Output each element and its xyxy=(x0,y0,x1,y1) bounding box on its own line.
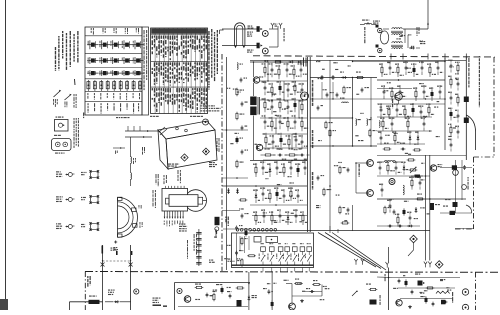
capacitor K1-28 xyxy=(293,133,302,147)
capacitor K4-7 xyxy=(435,61,443,75)
cap row K7 xyxy=(388,225,413,228)
DIN socket 1 xyxy=(55,117,69,132)
wire K5 row0 xyxy=(250,160,307,162)
capacitor K8-9 xyxy=(455,126,459,139)
hook curve right xyxy=(466,205,472,213)
label mid (rotated) xyxy=(187,240,188,259)
wire k1 h2 xyxy=(260,99,307,101)
wire k1 v2 xyxy=(253,83,255,96)
resistor K1-17 xyxy=(299,100,304,114)
board LP59 left boundary (dash-dot) xyxy=(84,272,86,311)
resistor K5-17 xyxy=(269,211,278,225)
gnd K12 xyxy=(300,299,304,302)
margin tick xyxy=(74,79,77,85)
capacitor K1-3 xyxy=(284,63,293,77)
resistor K4b-3 xyxy=(402,105,411,119)
sound output cluster wires xyxy=(393,278,460,299)
res K2-4 xyxy=(343,86,351,95)
capacitor K1-6 xyxy=(262,81,272,95)
resistor K5-4 xyxy=(281,163,285,177)
transistor V20 xyxy=(253,77,259,83)
ecap K12 xyxy=(271,300,274,307)
wires K3 xyxy=(383,0,429,43)
fuse dark xyxy=(89,296,100,305)
wire k1 vq3 xyxy=(298,100,300,118)
wire k1 h5 xyxy=(263,159,307,161)
ecap K11 xyxy=(221,286,224,293)
aerial symbol 1 xyxy=(53,90,61,107)
junction dots right xyxy=(352,61,431,200)
transistor V61 xyxy=(396,300,402,306)
wire K7 v2 xyxy=(429,155,431,261)
resistor K1-7 xyxy=(269,83,277,97)
value labels zone 8 xyxy=(195,287,231,300)
resistor K8-2 xyxy=(448,76,452,89)
main bus y60 xyxy=(250,59,466,61)
channel selector frame xyxy=(232,233,314,268)
resistor K1-4 xyxy=(291,65,300,79)
coil K2-1 xyxy=(356,119,361,126)
capacitor K9-5 xyxy=(241,126,248,131)
parts table frame xyxy=(151,28,208,114)
dash line crossing ticks xyxy=(391,54,466,60)
resistor K1-27 xyxy=(286,135,291,149)
capacitor K4-12 xyxy=(421,85,429,99)
resistor K9-8 xyxy=(236,160,244,169)
res K9-x3 xyxy=(241,237,248,246)
cap K11-1 xyxy=(206,293,209,298)
D IF2 xyxy=(297,61,303,64)
diode K4b-14 xyxy=(415,131,419,145)
wire K4b h1 xyxy=(377,116,432,118)
sound board frame xyxy=(175,283,251,311)
wire k1 vq1 xyxy=(267,62,269,81)
res K7-3 xyxy=(384,206,391,215)
capacitor K1-13 xyxy=(269,100,274,114)
transistor V60 xyxy=(418,281,426,286)
selector contact labels xyxy=(259,243,311,261)
capacitor K4b-10 xyxy=(421,117,425,131)
resistor K5-21 xyxy=(300,211,307,225)
res K12-2 xyxy=(312,280,321,286)
tuner screw test point xyxy=(203,119,209,125)
capacitor K9-7 xyxy=(241,150,248,155)
fork bottom 2 xyxy=(424,262,427,268)
value labels zone 3 xyxy=(253,164,304,223)
wire K6 v xyxy=(329,61,331,231)
mixer transformer top xyxy=(391,28,403,35)
terminal circled 2 xyxy=(134,289,139,294)
caption under tables xyxy=(150,105,221,117)
cap K7-4 xyxy=(393,210,396,215)
diode K12 xyxy=(248,295,257,301)
service note text (rotated) xyxy=(55,31,79,71)
resistor K1-12 xyxy=(262,98,271,112)
zigzag resistor xyxy=(436,291,450,293)
value labels zone 11 xyxy=(448,66,459,137)
electrolytic K5-6 xyxy=(295,163,300,177)
capacitor K4-5 xyxy=(419,61,424,75)
resistor K7x-9 xyxy=(395,213,399,226)
capacitor K1-31 xyxy=(273,148,288,159)
ecap K9 low xyxy=(245,229,248,236)
capacitor K4b-0 xyxy=(378,103,385,117)
resistor K4b-7 xyxy=(380,117,388,131)
transistor V42 xyxy=(430,164,442,171)
bus K4 xyxy=(377,79,445,81)
junctions K2 xyxy=(332,77,353,147)
resistor K5-13 xyxy=(288,187,296,201)
capacitor K7x-7 xyxy=(379,183,383,196)
wire K7 right h xyxy=(440,167,472,169)
fork pair mid xyxy=(354,259,364,265)
aerial symbol 2 xyxy=(65,94,72,107)
resistor K4b-9 xyxy=(405,117,410,131)
resistor K1-32 xyxy=(285,148,300,159)
res K12-1 xyxy=(294,279,303,285)
component x466-1 xyxy=(464,97,469,103)
balance coil label xyxy=(362,20,369,21)
IF shield wall xyxy=(308,57,311,232)
fork label xyxy=(275,24,278,27)
res K6-2 xyxy=(339,206,346,215)
board LP30 right boundary lower (dash-dot) xyxy=(473,157,475,229)
terminal K3-2 xyxy=(376,45,382,53)
cap K12-2 xyxy=(306,288,314,293)
wire bottom left v2 xyxy=(130,245,132,310)
resistor K1-30 xyxy=(261,148,276,156)
board LP30 boundary jog xyxy=(474,156,495,158)
wire k1 vq2 xyxy=(283,81,285,100)
diode K5-2 xyxy=(267,163,271,177)
wire K11 h xyxy=(178,306,248,308)
wire bottom left h xyxy=(70,301,103,303)
label LP 30 (rotated) xyxy=(225,217,229,227)
capacitor K1-5 xyxy=(298,63,307,77)
wire left bottom xyxy=(377,276,393,279)
capacitor K1-1 xyxy=(269,63,277,77)
res K2-1 xyxy=(356,77,365,79)
capacitor K5-20 xyxy=(293,209,298,223)
bus mid right 2 xyxy=(353,61,446,63)
capacitor K4-10 xyxy=(397,85,406,99)
capacitor K7x-0 xyxy=(377,161,382,174)
wire K7 v1 xyxy=(425,155,427,261)
CRT note text xyxy=(179,224,187,232)
wire bottom left v1 xyxy=(102,245,104,310)
transistor V21 xyxy=(256,144,262,150)
aerial matching coil 2 xyxy=(131,163,132,186)
resistor K1-14 xyxy=(277,98,286,112)
vert line x445 xyxy=(444,58,446,150)
selector ground stubs xyxy=(263,268,309,272)
diode K7x-6 xyxy=(401,161,406,174)
coil K2-2 xyxy=(367,119,373,126)
choke L20 xyxy=(250,97,256,116)
electrolytic K1-26 xyxy=(278,133,287,147)
cap K2-5 xyxy=(361,87,369,93)
cap K2-1 xyxy=(321,75,324,80)
resistor K4-2 xyxy=(395,63,399,77)
vert right mid a xyxy=(455,160,457,213)
capacitor K9-3 xyxy=(241,102,248,107)
wire k1 h1b xyxy=(260,80,307,82)
tuner label bottom xyxy=(168,164,179,167)
resistor K5-10 xyxy=(267,189,271,203)
tuner label left xyxy=(142,147,145,155)
capacitor K7x-10 xyxy=(407,211,411,224)
capacitor K9-1 xyxy=(240,78,247,83)
wire K7 h3 xyxy=(377,225,420,227)
label LP left of coils xyxy=(364,27,365,43)
tuner diamond mark 1 xyxy=(181,154,188,161)
table bottom type labels xyxy=(88,103,140,113)
value labels zone 10 xyxy=(334,162,349,221)
diode pair K9a xyxy=(227,188,239,194)
CRT socket and tube neck xyxy=(162,188,207,211)
parts table header band xyxy=(151,29,207,34)
res K11-3 xyxy=(236,287,245,289)
wire K2 row2 xyxy=(311,117,353,119)
coil K4b xyxy=(379,121,380,128)
wire K5 row2b xyxy=(252,215,307,217)
cap B1 xyxy=(398,279,401,284)
transistor V41 xyxy=(356,190,373,197)
coil K9-0 xyxy=(237,63,243,70)
capacitor K4b-2 xyxy=(394,103,402,117)
dark diode K7b xyxy=(411,175,423,178)
pin diagram symbols row xyxy=(87,80,142,91)
resistor K1-21 xyxy=(285,117,294,131)
labels near V1 xyxy=(247,32,253,37)
dark diode right mid xyxy=(443,206,455,216)
capacitor K4-1 xyxy=(387,61,396,75)
parts table column rules xyxy=(155,28,205,114)
capacitor K1-25 xyxy=(270,135,279,149)
deflection yoke (half ring) xyxy=(118,197,138,237)
resistor K4-0 xyxy=(379,63,387,77)
board LP30 right boundary upper (dash-dot) xyxy=(493,57,495,157)
resistor K4b-1 xyxy=(386,105,391,119)
diode bottom left xyxy=(105,300,131,303)
wire K9 h1 xyxy=(222,129,248,131)
cap B3 xyxy=(411,290,414,295)
transistor V40 xyxy=(356,160,373,167)
wire K9 h2 xyxy=(222,177,248,179)
capacitor K7x-4 xyxy=(417,176,421,189)
fork bottom 3 xyxy=(428,262,431,268)
adjust note xyxy=(153,298,168,307)
res K2-7 xyxy=(325,121,333,130)
selector res xyxy=(247,255,256,257)
semiconductor table frame xyxy=(85,27,142,115)
wire K4 h2 xyxy=(377,103,445,105)
wire K5 row1 xyxy=(222,185,307,187)
res K7-1 xyxy=(416,194,425,201)
loudspeaker connection row 1 xyxy=(56,170,99,179)
value labels zone 1 xyxy=(317,60,364,136)
wire K12 net xyxy=(286,284,322,304)
scan mark bottom-left corner xyxy=(0,299,8,310)
labels above sound box xyxy=(209,259,235,263)
resistor K1-19 xyxy=(269,117,278,131)
resistor K4-6 xyxy=(427,63,436,77)
capacitor K5-9 xyxy=(260,187,269,201)
electrolytic K9-6 xyxy=(236,136,243,143)
ind B2 xyxy=(405,279,408,286)
diode K4b-13 xyxy=(407,131,411,145)
cap K9-x4 xyxy=(235,250,243,256)
dark blob right mid2 xyxy=(445,199,458,207)
yoke labels xyxy=(139,205,143,228)
wire K4b h2 xyxy=(377,130,432,132)
labels B xyxy=(415,274,445,294)
capacitor K4b-11 xyxy=(378,131,382,145)
board boundary bottom (dash-dot) xyxy=(85,271,500,274)
label AF 239 S (rotated) xyxy=(312,80,314,190)
value labels zone 4 xyxy=(389,163,429,219)
vertical bus x278 xyxy=(269,29,278,47)
aerial fork top 1 xyxy=(271,23,274,29)
capacitor K4b-5 xyxy=(418,105,427,119)
cap K9-x1 xyxy=(241,213,249,219)
jumper wire 1 xyxy=(318,233,376,268)
capacitor K1-20 xyxy=(277,115,282,129)
capacitor K8-7 xyxy=(455,110,459,123)
transistor V51 xyxy=(289,303,296,310)
capacitor K7x-2 xyxy=(393,161,397,174)
capacitor K5-16 xyxy=(261,209,265,223)
parts table rotated text xyxy=(152,36,207,113)
resistor K8-5 xyxy=(455,94,459,107)
coil K2-3 xyxy=(340,98,348,104)
label F5 (rotated) xyxy=(452,292,453,303)
res shield-side xyxy=(323,188,331,197)
resistor K8-8 xyxy=(448,124,452,137)
bracket mark xyxy=(220,30,224,34)
capacitor string A xyxy=(194,229,202,266)
wire K4b h3 xyxy=(377,143,425,145)
cap K12-1 xyxy=(263,288,270,294)
dashed link xyxy=(103,260,131,262)
board LP33 top boundary (dashed) xyxy=(253,56,495,57)
test point circle K7 xyxy=(389,179,395,185)
terminal K3-1 xyxy=(376,25,382,33)
left bottom parts xyxy=(366,284,377,305)
resistor K8-1 xyxy=(455,62,460,75)
transistor case symbols rows xyxy=(87,40,144,76)
resistor K1-10 xyxy=(292,81,302,95)
capacitor K7x-8 xyxy=(387,199,392,212)
dark component K9 xyxy=(215,217,220,225)
label shield-side xyxy=(316,205,320,208)
wire k1 vq4 xyxy=(275,118,277,134)
diode K3-1 xyxy=(409,47,415,50)
diode K2 xyxy=(341,76,347,79)
fork bottom 1 xyxy=(386,262,389,268)
wire selector to diag xyxy=(330,226,338,233)
coil core lines xyxy=(258,97,260,115)
yoke bottom marks xyxy=(102,246,133,256)
capacitor K4b-16 xyxy=(400,143,408,154)
vertical long x352 lower xyxy=(352,205,354,231)
value labels zone 5 xyxy=(224,88,244,261)
ecap B6 xyxy=(425,296,428,303)
D IF1 xyxy=(288,61,294,64)
wire drop x388 xyxy=(388,247,390,262)
ecap K7 xyxy=(403,208,406,215)
bottom edge lp30 xyxy=(455,228,474,230)
res B4 xyxy=(426,287,435,289)
cap B7 xyxy=(432,302,435,307)
value labels zone 2 xyxy=(380,62,440,137)
tuner diamond mark 2 xyxy=(203,148,210,155)
cap right mid xyxy=(452,165,467,189)
res K9 h xyxy=(239,199,248,201)
terminal circled 1 xyxy=(177,288,182,293)
wire fork to circuit xyxy=(269,26,278,29)
value labels zone 7 xyxy=(393,275,451,297)
diode B5 xyxy=(441,300,448,305)
resistor K9-2 xyxy=(236,88,244,97)
wire top mid xyxy=(367,22,369,25)
res K6-1 xyxy=(339,166,346,175)
component x466-2 xyxy=(464,118,469,124)
swoop cable xyxy=(466,115,475,150)
cap K2-2 xyxy=(332,75,335,80)
res K11-2 xyxy=(213,293,215,302)
transistor V2 xyxy=(262,48,268,54)
value labels zone 9 xyxy=(396,34,423,47)
wire K9 h3 xyxy=(222,210,240,212)
capacitor K4-8 xyxy=(381,85,385,99)
heater labels xyxy=(248,26,254,29)
wire k1 h4 xyxy=(263,133,307,135)
junction dots global xyxy=(226,61,467,293)
resistor K4-11 xyxy=(413,87,417,101)
label LP 59 (rotated) xyxy=(87,276,91,287)
labels K11 xyxy=(216,284,231,292)
label x388 xyxy=(380,274,386,305)
labels 412/413 xyxy=(108,290,115,296)
cap K6-2 xyxy=(347,208,350,213)
row of terminals xyxy=(236,229,276,232)
resistor K5-0 xyxy=(253,163,258,177)
value labels zone 6 xyxy=(267,280,330,301)
label LP right xyxy=(284,28,285,41)
marks below table A xyxy=(83,113,130,119)
cap shield-side xyxy=(317,175,325,181)
resistor K7x-5 xyxy=(409,176,414,189)
socket legend text xyxy=(74,118,79,148)
capacitor K1-18 xyxy=(262,115,271,129)
CRT socket top ticks xyxy=(166,186,185,189)
board LP33 left boundary (dash-dot) xyxy=(221,54,223,271)
jumper wire 2 xyxy=(325,233,381,269)
resistor K1-23 xyxy=(299,117,309,131)
res K9-x5 xyxy=(241,258,243,267)
wire K12 v2 xyxy=(271,272,273,310)
DIN socket 2 xyxy=(52,135,72,154)
bus K4 upper xyxy=(377,88,412,90)
terminal below K9 xyxy=(215,227,219,234)
vert line x462 xyxy=(465,57,467,160)
resistor K4b-6 xyxy=(426,103,435,117)
capacitor K1-15 xyxy=(285,100,293,114)
capacitor K1-11 xyxy=(299,83,308,97)
coil K7-2 xyxy=(403,185,404,195)
tuner label right xyxy=(217,138,220,152)
